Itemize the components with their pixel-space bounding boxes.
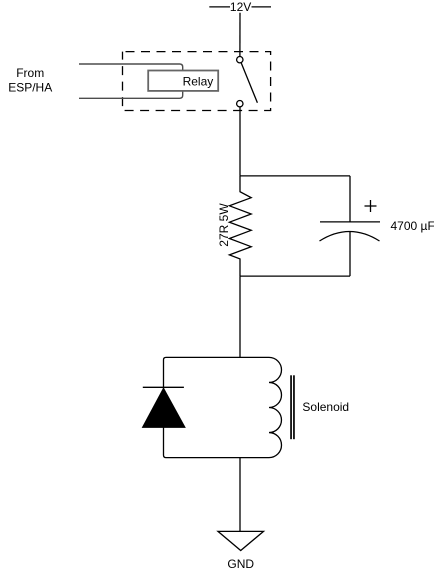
inductor L solenoid coil	[269, 357, 282, 457]
plus polarity mark	[365, 200, 377, 212]
svg-text:GND: GND	[227, 557, 254, 571]
switch blade	[241, 63, 257, 103]
wire solenoid to ground	[239, 458, 241, 532]
relay dashed enclosure	[123, 52, 271, 111]
switch contact top	[237, 57, 243, 63]
relay coil rectangle	[79, 64, 183, 98]
svg-text:12V: 12V	[230, 0, 251, 14]
wire 12V to switch	[239, 13, 241, 57]
diode D1 flyback	[143, 387, 186, 427]
solenoid loop wire	[164, 357, 270, 457]
svg-text:Relay: Relay	[183, 75, 214, 89]
svg-text:Solenoid: Solenoid	[302, 400, 349, 414]
wire node B to solenoid	[239, 276, 241, 357]
relay label box	[148, 71, 218, 91]
svg-text:From: From	[16, 66, 44, 80]
node A top branch wire	[240, 175, 350, 177]
svg-text:4700 µF: 4700 µF	[391, 219, 434, 233]
wire branch to capacitor	[349, 176, 351, 222]
power rail 12V	[209, 0, 271, 14]
svg-text:27R 5W: 27R 5W	[217, 203, 231, 247]
switch contact bottom	[237, 101, 243, 107]
label From ESP/HA	[8, 66, 52, 95]
wire switch to node A	[239, 107, 241, 176]
inductor core bars	[291, 375, 294, 439]
wire capacitor to bottom branch	[349, 231, 351, 276]
capacitor C 4700uF	[320, 222, 381, 241]
node B bottom branch wire	[240, 275, 350, 277]
resistor R 27R 5W	[229, 176, 251, 276]
ground symbol	[218, 531, 264, 550]
svg-text:ESP/HA: ESP/HA	[8, 80, 52, 94]
